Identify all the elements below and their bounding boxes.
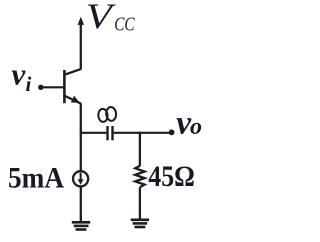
svg-text:o: o <box>190 114 202 140</box>
wire base <box>41 86 64 88</box>
label vi <box>12 57 32 97</box>
wire output left segment <box>80 132 107 134</box>
label infinity on capacitor <box>98 107 117 123</box>
ground left <box>72 222 90 229</box>
svg-text:45Ω: 45Ω <box>148 161 195 193</box>
node vo output dot <box>169 129 175 135</box>
wire source to ground <box>80 187 82 222</box>
label vo <box>176 104 202 141</box>
svg-text:CC: CC <box>114 14 135 36</box>
wire emitter down <box>80 104 82 171</box>
label VCC <box>86 0 135 36</box>
wire output right segment <box>114 132 172 134</box>
node vi input dot <box>38 85 43 90</box>
svg-text:v: v <box>12 57 27 92</box>
svg-text:V: V <box>86 0 117 36</box>
ground right <box>131 220 149 227</box>
current source I1 5mA <box>73 171 88 186</box>
VCC supply arrow <box>78 17 84 70</box>
resistor R1 45ohm zigzag <box>135 166 144 188</box>
svg-text:i: i <box>26 72 32 96</box>
transistor Q1 <box>64 69 81 104</box>
wire resistor top <box>139 132 141 166</box>
wire resistor bottom <box>139 187 141 219</box>
capacitor C1 (infinite) plates <box>108 126 113 140</box>
svg-text:5mA: 5mA <box>8 162 65 194</box>
